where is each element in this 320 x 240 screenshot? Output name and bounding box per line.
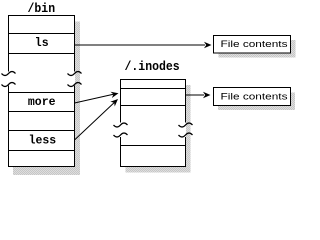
svg-text:File contents: File contents <box>221 91 288 102</box>
svg-text:more: more <box>28 96 56 109</box>
/bin table upper section borders and row dividers <box>8 15 75 72</box>
File contents box 1 drop shadow <box>219 40 296 58</box>
File contents box 2 drop shadow <box>218 93 295 111</box>
File contents box 1 <box>214 36 291 54</box>
arrow: inode entry to File contents box 2 <box>186 92 211 98</box>
/bin directory table drop shadow <box>13 22 80 176</box>
/.inodes table upper section borders and row dividers <box>120 79 186 123</box>
arrow: ls entry to File contents box 1 <box>75 42 212 48</box>
svg-text:/bin: /bin <box>28 2 56 16</box>
svg-text:File contents: File contents <box>221 39 288 50</box>
/.inodes table drop shadow <box>126 85 191 173</box>
/bin table torn-break squiggles <box>2 72 82 87</box>
arrow: more entry to /.inodes row <box>75 92 119 103</box>
/bin table lower section borders and row dividers <box>8 86 75 168</box>
File contents box 2 <box>214 88 291 106</box>
/.inodes table torn-break squiggles <box>114 123 193 137</box>
/.inodes table lower section borders <box>120 137 186 167</box>
/.inodes table body <box>120 79 186 167</box>
svg-text:ls: ls <box>35 37 49 50</box>
svg-text:/.inodes: /.inodes <box>125 60 180 74</box>
arrow: less entry to /.inodes row <box>75 99 119 140</box>
/bin directory table body <box>8 15 75 167</box>
svg-text:less: less <box>29 135 57 148</box>
